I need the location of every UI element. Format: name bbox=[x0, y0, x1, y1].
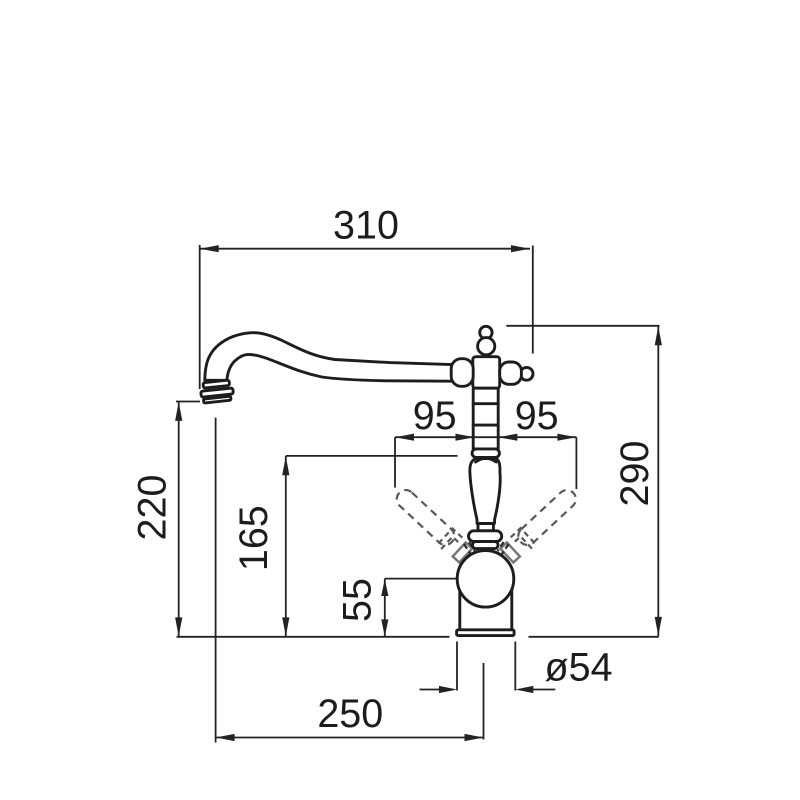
svg-text:310: 310 bbox=[333, 204, 399, 248]
svg-text:95: 95 bbox=[515, 394, 559, 438]
svg-text:220: 220 bbox=[131, 475, 175, 541]
svg-text:55: 55 bbox=[336, 578, 380, 622]
svg-text:250: 250 bbox=[317, 692, 383, 736]
svg-text:95: 95 bbox=[413, 394, 457, 438]
svg-text:ø54: ø54 bbox=[545, 646, 613, 690]
svg-text:165: 165 bbox=[232, 505, 276, 571]
svg-text:290: 290 bbox=[613, 441, 657, 507]
